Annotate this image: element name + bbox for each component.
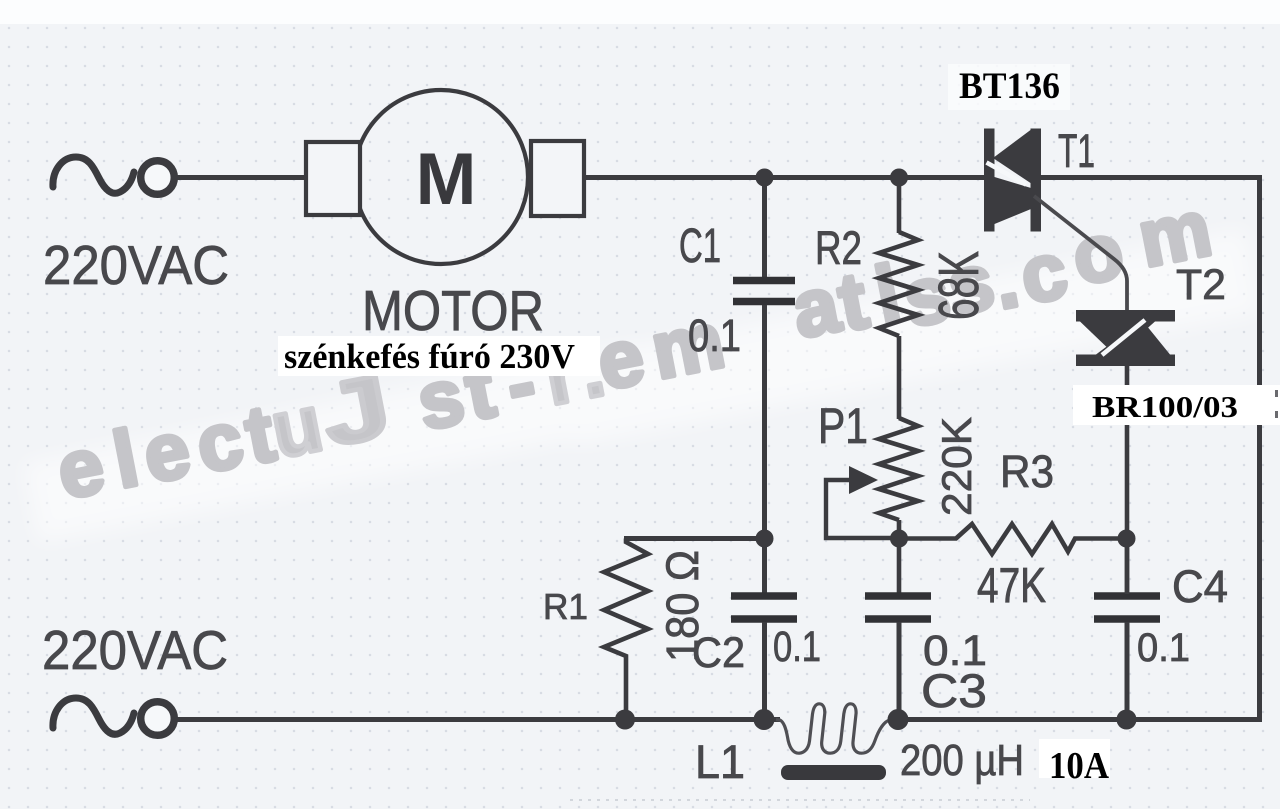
node: top rail C1 junction (756, 169, 774, 187)
triac T1 left bar (984, 129, 995, 232)
wire: R2 branch top (897, 180, 902, 233)
svg-text:200 µH: 200 µH (900, 736, 1024, 785)
capacitor C4 (1094, 592, 1160, 600)
svg-text:68K: 68K (927, 251, 991, 320)
svg-text:MOTOR: MOTOR (362, 279, 544, 343)
svg-text:R2: R2 (815, 221, 862, 274)
motor M1 circle (354, 90, 528, 264)
wire: C1 branch upper (762, 180, 767, 278)
svg-text:R1: R1 (543, 586, 588, 627)
svg-text:220K: 220K (933, 417, 980, 516)
node: bottom C4 junction (1117, 710, 1137, 730)
wire: C3 bottom (897, 622, 902, 718)
bottom dotted scan row (570, 799, 1030, 801)
node: top rail R2 junction (890, 169, 908, 187)
wire: diac to R3 node (1125, 366, 1130, 385)
svg-text:220VAC: 220VAC (42, 619, 228, 681)
resistor R1 (604, 539, 648, 722)
wire: C1 branch lower (762, 305, 767, 594)
capacitor C3 (865, 592, 931, 600)
svg-text:C4: C4 (1172, 561, 1228, 612)
wire: C4 top (1125, 538, 1130, 594)
potentiometer P1 zigzag (879, 418, 918, 520)
AC source bottom: squiggle (53, 698, 134, 734)
svg-text:T2: T2 (1176, 261, 1226, 309)
triac T1 upper triangle (993, 130, 1031, 183)
diac T2 white slash (1102, 320, 1145, 355)
label BR100/03 white box (1073, 385, 1280, 425)
diac T2 bottom bar (1076, 355, 1175, 367)
svg-text:L1: L1 (695, 735, 745, 788)
wire: top rail AC to motor (173, 175, 307, 180)
triac T1 white slash (987, 163, 1027, 185)
resistor R3 (899, 524, 1126, 554)
svg-text:0.1: 0.1 (688, 310, 741, 361)
diac T2 wire through (1125, 310, 1130, 366)
svg-text:0.1: 0.1 (1137, 626, 1190, 670)
wire: C4 bottom (1125, 622, 1130, 718)
svg-text:47K: 47K (977, 559, 1046, 613)
svg-text:BR100/03: BR100/03 (1092, 389, 1238, 424)
white label boxes (278, 336, 600, 376)
wire: R2 to P1 (897, 336, 902, 419)
wire: right border (1257, 175, 1262, 721)
inductor L1 coil (776, 704, 890, 753)
node: bottom C3 junction (888, 709, 909, 730)
node: bottom C2 junction (754, 709, 775, 730)
motor brush right (531, 141, 584, 216)
triac T1 lower triangle (995, 177, 1032, 224)
wire: top rail triac to right corner (1040, 175, 1262, 180)
wire: top rail motor to triac (583, 175, 986, 180)
triac T1 right bar (1031, 129, 1042, 232)
motor brush left (306, 142, 360, 215)
svg-text:R3: R3 (1000, 446, 1054, 497)
svg-text:szénkefés fúró 230V: szénkefés fúró 230V (284, 337, 575, 376)
AC source top: squiggle (53, 157, 134, 193)
node: bottom R1 junction (615, 710, 635, 730)
svg-text:M: M (416, 139, 477, 220)
resistor R2 (879, 232, 918, 336)
svg-text:C3: C3 (921, 664, 987, 717)
svg-text:C2: C2 (692, 629, 745, 677)
potentiometer wiper wire (826, 480, 897, 538)
inductor L1 core bar (781, 765, 886, 780)
wire: bottom rail right (888, 717, 1262, 722)
diac T2 top bar (1076, 310, 1175, 322)
wire: P1 to C3 (897, 520, 902, 594)
potentiometer wiper arrow (849, 466, 878, 494)
diac T2 right triangle (1096, 320, 1170, 355)
svg-text:10A: 10A (1049, 745, 1110, 787)
wire: R1 top horizontal (624, 536, 765, 541)
wire: bottom rail left (173, 717, 780, 722)
svg-text:220VAC: 220VAC (43, 234, 229, 296)
svg-text:0.1: 0.1 (773, 623, 821, 671)
svg-text:T1: T1 (1058, 124, 1095, 177)
svg-text:BT136: BT136 (959, 66, 1060, 107)
capacitor C2 (731, 592, 797, 600)
svg-text:C1: C1 (679, 220, 721, 273)
diac T2 left triangle (1080, 322, 1155, 357)
triac gate wire (1034, 196, 1127, 313)
svg-text:P1: P1 (818, 398, 868, 454)
AC source bottom: terminal circle (141, 702, 175, 736)
node: R3 C4 junction (1118, 530, 1136, 548)
watermark electroschematics.com (23, 228, 1262, 543)
capacitor C1 (733, 277, 795, 285)
AC source top: terminal circle (141, 161, 175, 195)
node: R1 top junction (756, 530, 774, 548)
wire: C2 bottom (762, 622, 767, 718)
node: wiper R3 junction (890, 530, 908, 548)
